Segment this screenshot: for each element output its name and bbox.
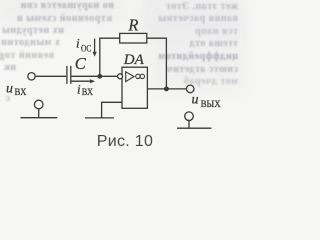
wire input terminal to capacitor [36,75,66,77]
resistor R [120,33,147,43]
svg-text:R: R [127,15,138,34]
node B (junction dot at output) [164,86,169,91]
wire capacitor to inverting input (through node A) [71,75,117,77]
non-inverting input wire to common [102,102,122,118]
svg-text:DA: DA [123,52,145,68]
op-amp infinity symbol [136,74,140,78]
output terminal (u_BYX signal terminal) [186,85,194,93]
current arrow i_OC [94,39,96,54]
feedback wire: left vertical [100,38,120,76]
feedback wire: right side, down to node B [147,38,167,89]
svg-text:u: u [6,81,13,96]
input terminal (u_BX signal terminal) [28,73,35,80]
bleed-through background text (decorative) [2,0,114,11]
node A (junction dot at inverting input) [97,74,102,79]
svg-text:ВЫХ: ВЫХ [201,99,221,109]
svg-text:ОС: ОС [81,43,91,53]
capacitor C [66,66,68,84]
svg-text:ВХ: ВХ [15,87,27,97]
output wire op-amp to output terminal (through node B) [147,88,186,90]
op-amp triangle [126,72,134,82]
bottom-right common terminal [185,112,194,121]
current arrow i_BX [70,80,92,82]
svg-text:Рис. 10: Рис. 10 [97,133,153,150]
svg-text:C: C [75,54,87,73]
op-amp DA box [122,67,147,108]
svg-text:i: i [76,36,80,51]
circuit schematic [0,0,240,167]
common bar near op-amp [85,117,114,119]
op-amp inversion bubble [118,74,123,79]
bottom-left common terminal [34,100,43,109]
svg-text:i: i [77,82,81,97]
svg-text:ВХ: ВХ [82,87,94,97]
svg-text:u: u [192,93,199,108]
